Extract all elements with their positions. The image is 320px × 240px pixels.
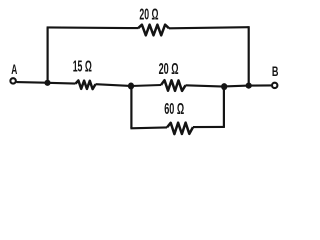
wire J1 to R2 [48,82,76,85]
wire J3 to J4 [224,85,249,88]
resistor R4 60 ohm (bottom branch) [167,123,193,135]
terminal B [272,83,277,88]
node J2 (junction dot, parallel section left) [128,83,134,90]
resistor R2 15 ohm [76,81,96,90]
node J1 (junction dot left) [44,80,50,86]
wire top rail left segment [47,26,138,29]
wire bottom-right vertical up to J3 [223,87,225,128]
svg-text:20 Ω: 20 Ω [159,59,179,77]
wire J2 to R3 [131,85,161,86]
wire right vertical down to node J4 [248,26,250,85]
wire top rail right segment [169,27,249,28]
wire bottom rail right segment [193,126,224,128]
node J3 (junction dot, parallel section right) [221,83,227,90]
resistor R3 20 ohm (middle branch) [161,80,186,91]
wire J4 to terminal B [249,84,272,86]
wire R3 to node J3 [186,85,225,86]
svg-text:20 Ω: 20 Ω [139,6,158,23]
wire A to junction [17,81,46,84]
wire bottom rail left segment [130,126,167,129]
svg-text:15 Ω: 15 Ω [73,58,92,75]
node J4 (junction dot, top branch tie-in) [246,83,252,89]
wire R2 to node J2 [96,84,132,86]
svg-text:A: A [11,63,18,78]
wire J1 up to top rail [46,27,48,82]
resistor R1 20 ohm (top branch) [138,25,169,36]
wire J2 down to bottom rail [130,86,132,128]
svg-text:B: B [272,63,279,80]
svg-text:60 Ω: 60 Ω [164,99,184,117]
terminal A [10,78,15,83]
